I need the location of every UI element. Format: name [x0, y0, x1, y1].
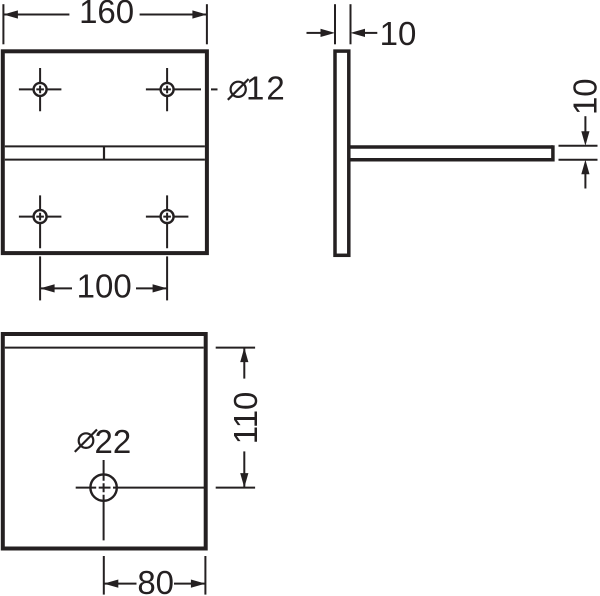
- dim 10 top shaft left: [307, 32, 322, 34]
- dim 160 arrowhead right: [192, 10, 207, 18]
- dim 160 extension line right: [206, 4, 208, 44]
- svg-text:110: 110: [227, 392, 264, 445]
- dim 10 top extension line right: [350, 4, 352, 44]
- hole d22 circle: [90, 474, 116, 500]
- svg-text:22: 22: [95, 423, 132, 460]
- side view flange bottom edge: [349, 158, 553, 162]
- dim 100 extension line right: [166, 256, 168, 300]
- leader dash for hole diameter label: [211, 88, 218, 90]
- hole d22 centerlines: [76, 460, 204, 540]
- front view flange edge upper line: [5, 145, 205, 147]
- dim 10 top arrowhead left: [321, 29, 336, 37]
- side view flange top edge: [349, 145, 553, 149]
- hole top-right centerlines: [146, 68, 201, 111]
- dim 10 right shaft upper: [584, 116, 586, 132]
- label d12 diameter symbol: [228, 79, 249, 100]
- svg-text:80: 80: [137, 564, 174, 596]
- dim 10 right extension line lower: [559, 159, 598, 161]
- dim 10 right extension line upper: [559, 145, 598, 147]
- svg-text:100: 100: [77, 267, 132, 304]
- dim 80 line: [104, 583, 206, 585]
- dim 10 right arrowhead upper: [581, 131, 589, 146]
- dim 160 extension line left: [2, 4, 4, 44]
- hole bottom-left centerlines: [19, 195, 62, 248]
- dim 160 line: [3, 14, 207, 16]
- hole bottom-left circle: [34, 210, 47, 223]
- dim 10 right arrowhead lower: [581, 160, 589, 175]
- hole bottom-right centerlines: [146, 195, 189, 248]
- dim 110 arrowhead top: [240, 348, 248, 363]
- side view web outline: [335, 51, 349, 255]
- svg-text:12: 12: [246, 69, 287, 106]
- dim 110 shaft bottom: [243, 451, 245, 487]
- label d22 diameter symbol: [75, 430, 97, 452]
- dim 10 right shaft lower: [584, 174, 586, 189]
- dim 100 extension line left: [39, 256, 41, 300]
- front view plate outline: [3, 51, 207, 253]
- dim 80 extension line right: [204, 556, 206, 595]
- dim 110 extension line bottom: [216, 487, 255, 489]
- side view flange end cap: [551, 145, 555, 161]
- svg-text:10: 10: [380, 15, 417, 52]
- dim 80 extension line left: [103, 556, 105, 595]
- dim 110 shaft top: [243, 348, 245, 379]
- dim 100 line: [40, 287, 167, 289]
- dim 80 arrowhead right: [191, 580, 206, 588]
- bottom view flange line: [5, 347, 204, 349]
- dim 100 arrowhead left: [40, 284, 55, 292]
- svg-text:10: 10: [567, 78, 600, 115]
- dim 80 arrowhead left: [104, 580, 119, 588]
- dim 110 extension line top: [216, 347, 255, 349]
- hole bottom-right circle: [161, 210, 174, 223]
- hole top-right circle: [161, 83, 174, 96]
- dim 100 arrowhead right: [153, 284, 168, 292]
- front view flange center tick: [103, 146, 105, 159]
- hole top-left centerlines: [19, 68, 62, 111]
- dim 10 top extension line left: [334, 4, 336, 44]
- hole top-left circle: [34, 83, 47, 96]
- bottom view plate outline: [3, 334, 206, 549]
- front view flange edge lower line: [5, 159, 205, 161]
- dim 10 top arrowhead right: [351, 29, 366, 37]
- dim 10 top shaft right: [365, 32, 377, 34]
- dim 110 arrowhead bottom: [240, 473, 248, 488]
- svg-text:160: 160: [79, 0, 134, 30]
- dim 160 arrowhead left: [3, 10, 18, 18]
